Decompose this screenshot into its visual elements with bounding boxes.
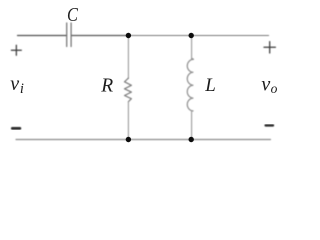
svg-text:vi: vi	[10, 73, 24, 97]
svg-text:vo: vo	[261, 73, 277, 96]
svg-text:R: R	[100, 75, 113, 96]
svg-text:L: L	[204, 75, 216, 96]
svg-text:C: C	[67, 3, 78, 26]
